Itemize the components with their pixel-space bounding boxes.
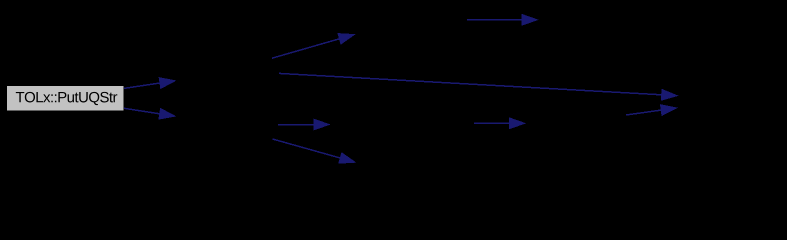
edge TOLx::PutUQStr -> node3 (lower middle) [124, 108, 175, 119]
edge node8 -> node9 [626, 105, 677, 116]
edge node3 -> node6 (middle) [278, 119, 330, 130]
edge node2 -> node9 (long, far right) [279, 73, 677, 100]
node TOLx::PutUQStr (grey root node with label) [7, 86, 125, 112]
edge node4 -> node5 (top right) [467, 14, 538, 25]
edge node6 -> node8 [474, 118, 525, 129]
edge node3 -> node7 (lower) [273, 139, 356, 163]
edge node2 -> node4 (upper) [272, 34, 355, 59]
edge TOLx::PutUQStr -> node2 (upper middle) [124, 78, 175, 89]
